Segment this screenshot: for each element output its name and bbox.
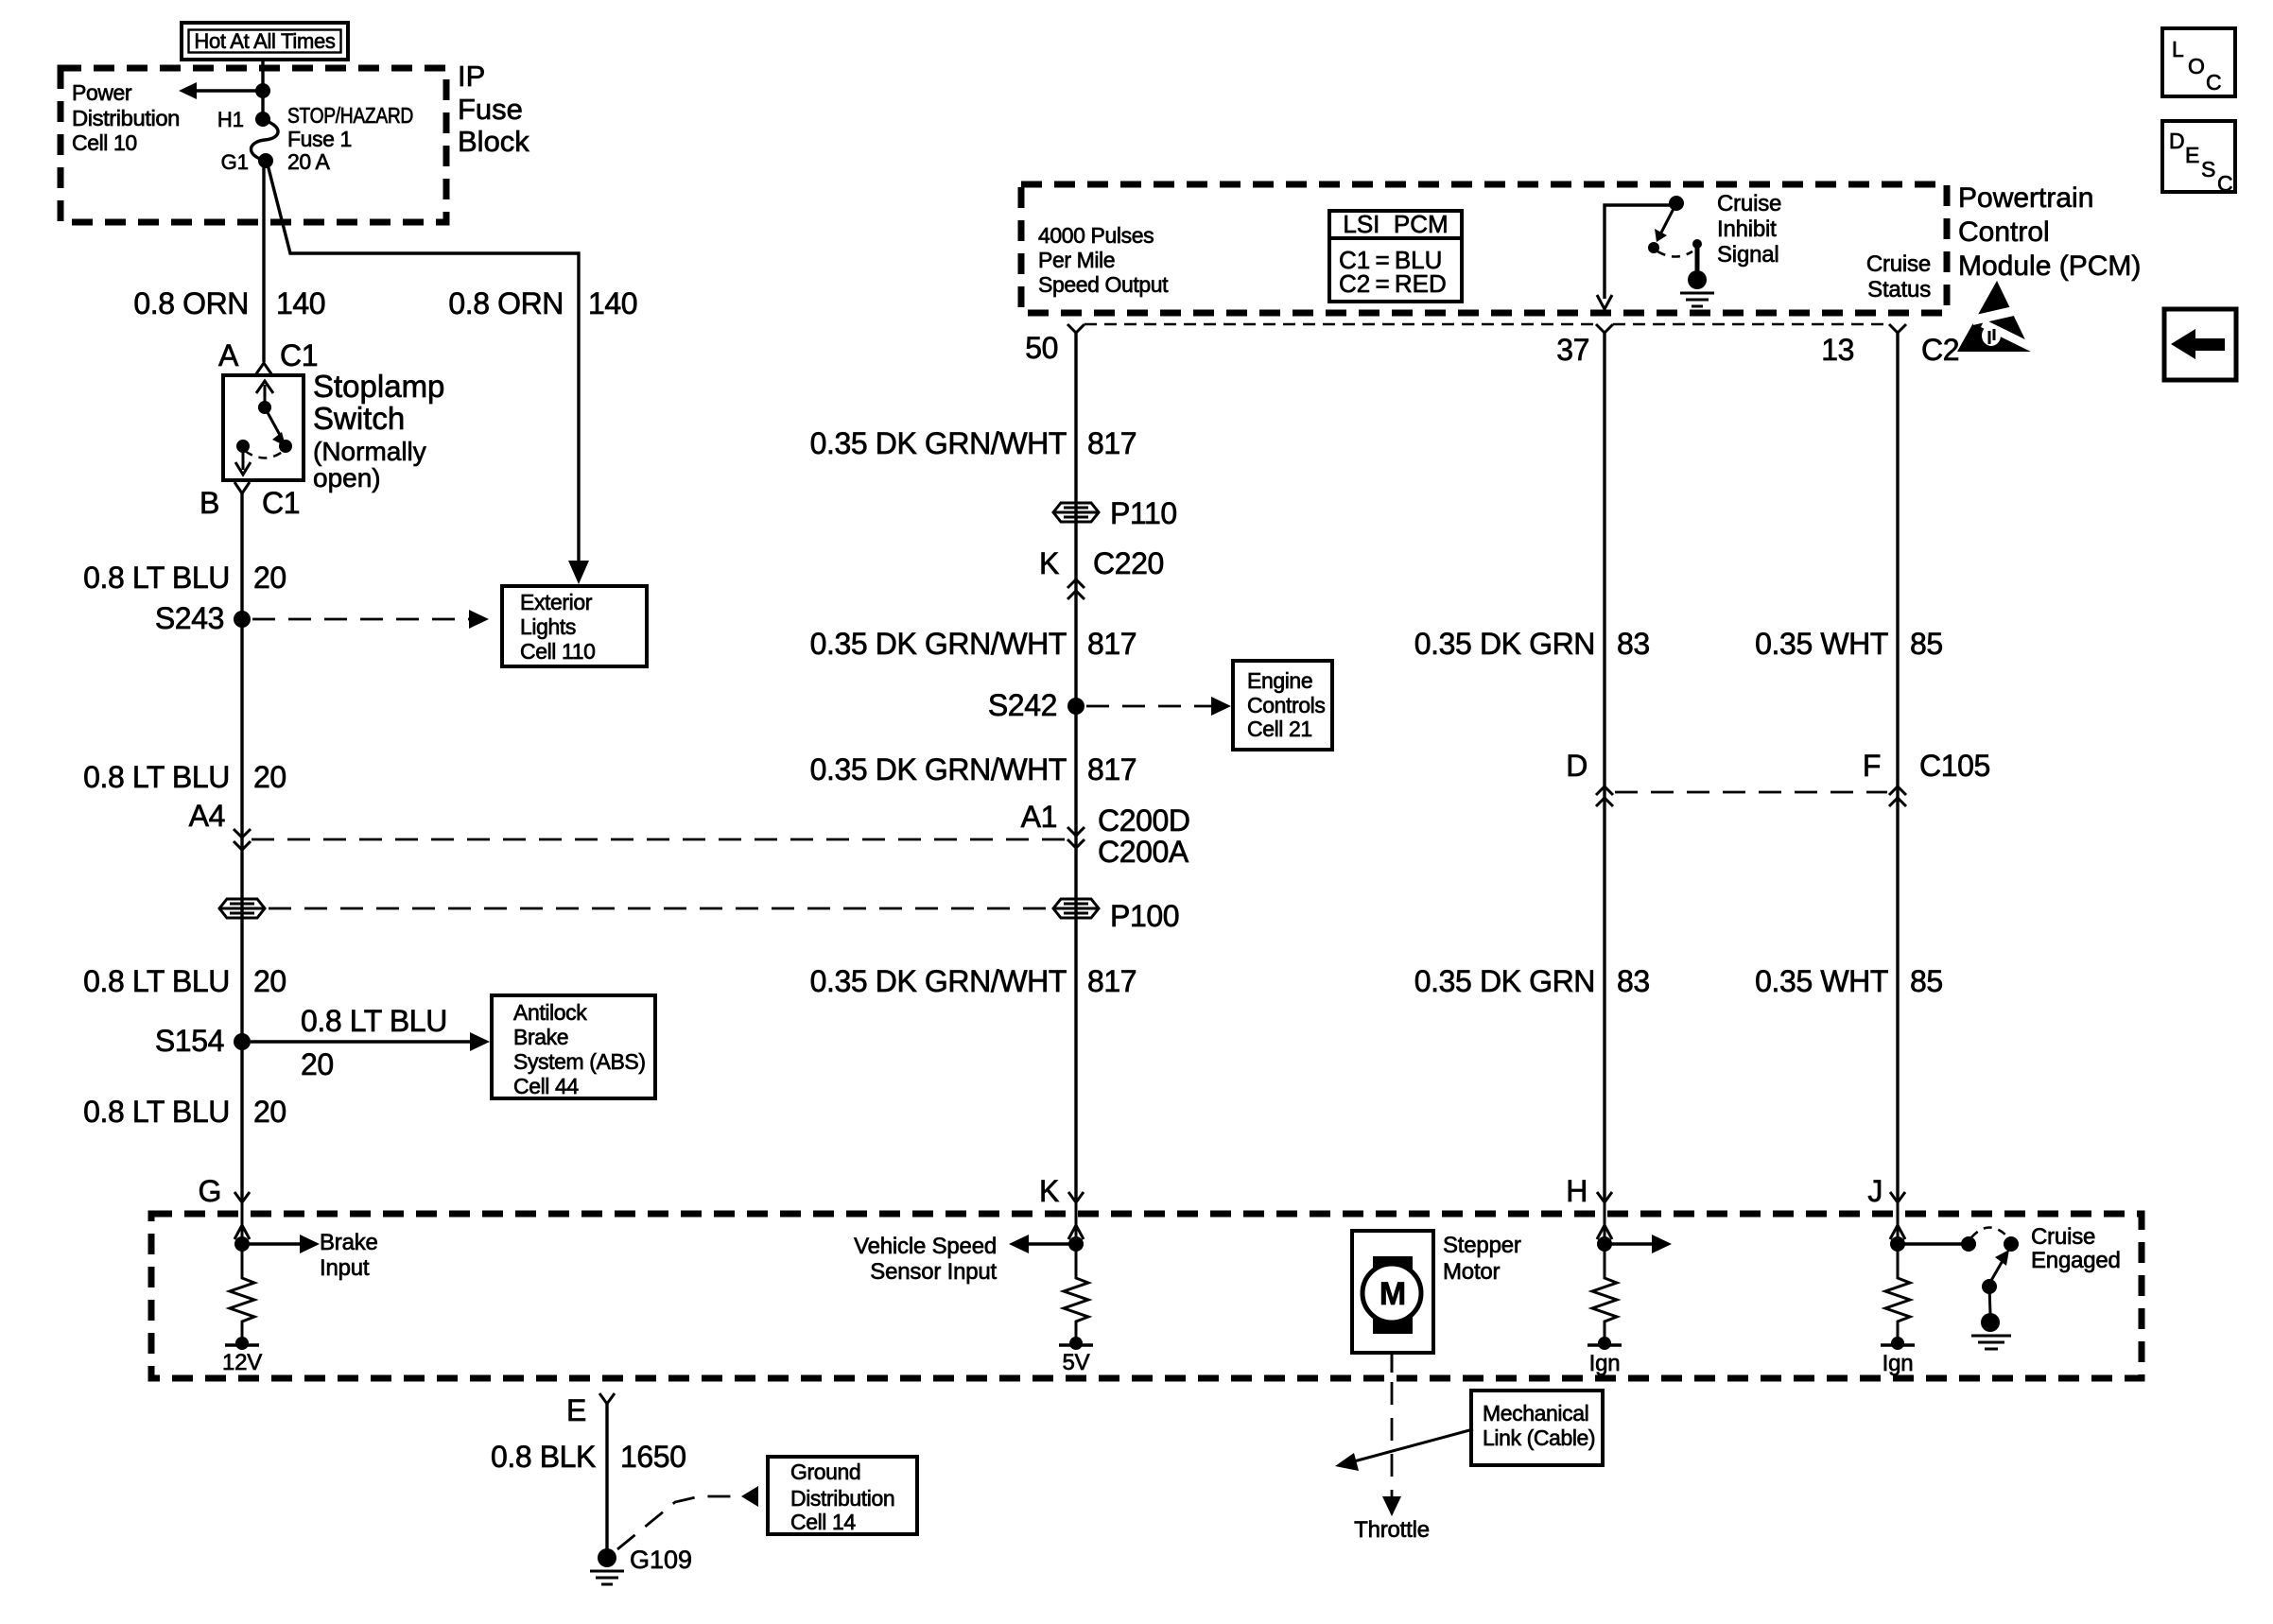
svg-text:open): open) xyxy=(313,463,381,492)
svg-text:Lights: Lights xyxy=(520,614,576,639)
wire label 0.35 DK GRN 83 (2) xyxy=(1414,964,1650,998)
dashed line connector C200 row xyxy=(252,838,1065,841)
svg-text:Input: Input xyxy=(320,1255,370,1281)
svg-text:Ground: Ground xyxy=(790,1460,860,1484)
svg-text:0.8 ORN: 0.8 ORN xyxy=(448,286,564,320)
svg-text:0.35 DK GRN/WHT: 0.35 DK GRN/WHT xyxy=(810,752,1067,786)
pin J xyxy=(1867,1174,1905,1244)
svg-text:A: A xyxy=(218,338,239,372)
svg-text:(Normally: (Normally xyxy=(313,437,426,466)
thin dashed connector line below PCM xyxy=(1084,323,1889,326)
wire label 0.35 WHT 85 (2) xyxy=(1755,964,1943,998)
svg-text:Cruise: Cruise xyxy=(1866,251,1931,277)
mechanical link cable box xyxy=(1471,1391,1603,1465)
wire label 0.35 DK GRN/WHT 817 (3) xyxy=(810,752,1137,786)
svg-text:C2: C2 xyxy=(1921,333,1959,367)
svg-text:0.35 DK GRN/WHT: 0.35 DK GRN/WHT xyxy=(810,426,1067,460)
resistor cruise engaged pull-up xyxy=(1885,1244,1910,1345)
svg-text:0.35 WHT: 0.35 WHT xyxy=(1755,627,1888,661)
svg-text:B: B xyxy=(200,486,219,520)
svg-text:Module (PCM): Module (PCM) xyxy=(1958,251,2141,282)
svg-text:Link (Cable): Link (Cable) xyxy=(1483,1425,1595,1450)
pin F connector C105 xyxy=(1863,749,1990,806)
svg-text:Brake: Brake xyxy=(320,1230,378,1255)
svg-text:0.35 DK GRN: 0.35 DK GRN xyxy=(1414,964,1595,998)
ground distribution box xyxy=(768,1457,917,1534)
node junction at power distribution tap xyxy=(255,83,270,98)
svg-text:C200D: C200D xyxy=(1098,803,1190,838)
wire label 0.8 BLK 1650 xyxy=(491,1440,686,1474)
svg-text:Mechanical: Mechanical xyxy=(1483,1401,1588,1425)
svg-text:Motor: Motor xyxy=(1443,1259,1501,1285)
svg-text:20: 20 xyxy=(253,1095,286,1129)
resistor VSS pull-up xyxy=(1064,1244,1088,1345)
svg-text:140: 140 xyxy=(588,286,637,320)
svg-text:Cruise: Cruise xyxy=(1717,191,1781,216)
IP fuse block dashed box xyxy=(61,68,446,222)
svg-text:Ign: Ign xyxy=(1883,1351,1914,1376)
svg-text:K: K xyxy=(1039,546,1059,580)
dashed arrow to ground distribution xyxy=(617,1486,758,1549)
stoplamp switch internals xyxy=(235,381,292,475)
svg-text:Cell 21: Cell 21 xyxy=(1247,717,1312,741)
svg-text:817: 817 xyxy=(1087,752,1136,786)
exterior lights box xyxy=(502,586,647,666)
Ign terminal H xyxy=(1588,1337,1622,1376)
svg-text:0.35 DK GRN: 0.35 DK GRN xyxy=(1414,627,1595,661)
svg-text:817: 817 xyxy=(1087,627,1136,661)
pin E xyxy=(566,1393,615,1550)
pin 37 xyxy=(1556,324,1613,367)
grommet P100 xyxy=(1053,899,1179,933)
cruise engaged switch xyxy=(1890,1228,2019,1350)
svg-text:Power: Power xyxy=(72,80,132,105)
grommet P110 xyxy=(1053,496,1177,530)
pin B connector C1 xyxy=(200,482,300,520)
Ign terminal J xyxy=(1881,1337,1915,1376)
Cruise Status label xyxy=(1866,251,1931,302)
Hot At All Times box xyxy=(182,23,348,60)
wire label 0.8 ORN 140 (left) xyxy=(133,286,325,320)
node G1 xyxy=(221,150,273,174)
svg-text:0.35 DK GRN/WHT: 0.35 DK GRN/WHT xyxy=(810,964,1067,998)
svg-text:13: 13 xyxy=(1821,333,1854,367)
4000 pulses label xyxy=(1038,223,1169,297)
svg-text:Speed Output: Speed Output xyxy=(1038,272,1169,297)
svg-text:Antilock: Antilock xyxy=(513,1000,587,1025)
svg-text:Hot At All Times: Hot At All Times xyxy=(194,29,336,53)
svg-text:Control: Control xyxy=(1958,216,2050,248)
wire from G1 down to stoplamp switch xyxy=(262,163,265,362)
svg-text:G109: G109 xyxy=(630,1546,692,1574)
svg-text:140: 140 xyxy=(276,286,325,320)
svg-text:Switch: Switch xyxy=(313,401,405,436)
svg-text:Block: Block xyxy=(458,125,529,158)
svg-text:Engaged: Engaged xyxy=(2031,1248,2121,1273)
fuse value label xyxy=(287,103,413,174)
svg-text:0.8 ORN: 0.8 ORN xyxy=(133,286,249,320)
IP Fuse Block label xyxy=(458,60,529,158)
Cruise Engaged label xyxy=(2031,1224,2121,1273)
wire label 0.35 DK GRN 83 (1) xyxy=(1414,627,1650,661)
svg-text:Cruise: Cruise xyxy=(2031,1224,2095,1250)
svg-text:P110: P110 xyxy=(1110,496,1177,530)
svg-text:50: 50 xyxy=(1025,331,1058,365)
svg-text:LSI PCM: LSI PCM xyxy=(1343,210,1448,238)
svg-text:Fuse 1: Fuse 1 xyxy=(287,127,352,151)
svg-text:C105: C105 xyxy=(1919,749,1990,783)
svg-text:20: 20 xyxy=(301,1047,334,1081)
wire arrow to Power Distribution xyxy=(179,82,261,99)
splice S243 xyxy=(155,601,251,635)
svg-text:D: D xyxy=(2169,129,2185,153)
svg-text:K: K xyxy=(1039,1174,1059,1208)
svg-text:Stepper: Stepper xyxy=(1443,1233,1521,1258)
LSI PCM legend table xyxy=(1329,210,1462,302)
svg-text:1650: 1650 xyxy=(620,1440,686,1474)
svg-text:Status: Status xyxy=(1867,277,1931,302)
svg-text:0.8 LT BLU: 0.8 LT BLU xyxy=(83,1095,230,1129)
wire branch from G1 to exterior lights feed xyxy=(268,164,579,563)
node H1 xyxy=(217,108,270,131)
svg-text:E: E xyxy=(566,1393,586,1427)
wire label 0.8 ORN 140 (right) xyxy=(448,286,637,320)
svg-text:Throttle: Throttle xyxy=(1354,1517,1430,1543)
fuse F1 STOP/HAZARD 20A xyxy=(252,120,279,161)
svg-text:Cell 110: Cell 110 xyxy=(520,639,595,664)
svg-text:4000 Pulses: 4000 Pulses xyxy=(1038,223,1154,248)
svg-text:Powertrain: Powertrain xyxy=(1958,182,2093,214)
ground G109 xyxy=(590,1546,692,1584)
wire label 0.35 WHT 85 (1) xyxy=(1755,627,1943,661)
svg-text:S243: S243 xyxy=(155,601,224,635)
wire label 0.8 LT BLU 20 (4) xyxy=(83,1095,286,1129)
wire stoplamp switch to cruise module pin G xyxy=(240,493,243,1202)
svg-text:S154: S154 xyxy=(155,1024,224,1058)
svg-text:E: E xyxy=(2185,143,2199,167)
svg-text:C2 = RED: C2 = RED xyxy=(1339,269,1447,298)
DESC box xyxy=(2162,121,2235,196)
dashed line grommet row to P100 xyxy=(269,907,1050,910)
pin K connector C220 xyxy=(1039,546,1164,599)
svg-text:Controls: Controls xyxy=(1247,693,1325,717)
Power Distribution Cell 10 label xyxy=(72,80,180,155)
svg-text:Brake: Brake xyxy=(513,1025,568,1049)
LOC box xyxy=(2162,28,2235,96)
svg-text:C1: C1 xyxy=(262,486,300,520)
svg-text:A4: A4 xyxy=(189,799,225,833)
arrow into exterior lights box xyxy=(568,561,589,584)
wire from Hot box to fuse H1 xyxy=(261,60,264,120)
svg-text:Signal: Signal xyxy=(1717,242,1779,268)
pin H xyxy=(1566,1174,1612,1244)
arrow to ABS xyxy=(251,1004,490,1081)
ABS box xyxy=(492,995,655,1098)
engine controls box xyxy=(1233,661,1332,750)
pin 50 xyxy=(1025,324,1084,365)
wire label 0.8 LT BLU 20 (2) xyxy=(83,760,286,794)
svg-text:A1: A1 xyxy=(1021,800,1057,834)
svg-text:0.35 DK GRN/WHT: 0.35 DK GRN/WHT xyxy=(810,627,1067,661)
dashed line connector C105 row xyxy=(1615,791,1887,794)
5V terminal xyxy=(1059,1337,1093,1375)
wire label 0.35 DK GRN/WHT 817 (4) xyxy=(810,964,1137,998)
svg-text:Sensor Input: Sensor Input xyxy=(870,1259,997,1285)
svg-text:0.35 WHT: 0.35 WHT xyxy=(1755,964,1888,998)
wire label 0.8 LT BLU 20 (3) xyxy=(83,964,286,998)
Powertrain Control Module label xyxy=(1958,182,2141,282)
svg-text:G1: G1 xyxy=(221,150,249,174)
svg-text:J: J xyxy=(1867,1174,1883,1208)
pin D connector xyxy=(1566,749,1613,806)
svg-text:IP: IP xyxy=(458,60,485,93)
wire label 0.35 DK GRN/WHT 817 (1) xyxy=(810,426,1137,460)
wire pin 50 to module pin K xyxy=(1074,333,1077,1202)
pin A1 connector C200D C200A xyxy=(1021,800,1190,869)
svg-text:20: 20 xyxy=(253,760,286,794)
pin A connector C1 xyxy=(218,338,318,375)
svg-text:Exterior: Exterior xyxy=(520,590,593,614)
resistor stepper pull-up xyxy=(1592,1244,1617,1345)
svg-text:C220: C220 xyxy=(1093,546,1164,580)
PCM dashed box xyxy=(1021,184,1947,313)
resistor brake input pull-up xyxy=(230,1244,254,1345)
svg-text:F: F xyxy=(1863,749,1881,783)
svg-text:S: S xyxy=(2201,157,2215,181)
arrow from mechanical link to cable xyxy=(1335,1429,1473,1471)
svg-text:Distribution: Distribution xyxy=(790,1486,894,1511)
svg-text:C1: C1 xyxy=(280,338,318,372)
vehicle speed sensor input arrow xyxy=(854,1234,1084,1285)
12V terminal xyxy=(222,1337,262,1375)
cruise inhibit internal circuit xyxy=(1597,196,1714,309)
dashed arrow to engine controls xyxy=(1086,697,1231,716)
splice S154 xyxy=(155,1024,251,1058)
svg-text:37: 37 xyxy=(1556,333,1589,367)
svg-text:817: 817 xyxy=(1087,426,1136,460)
svg-text:O: O xyxy=(2188,54,2205,78)
stepper motor box xyxy=(1352,1231,1433,1373)
svg-text:Fuse: Fuse xyxy=(458,93,523,126)
pin 13 connector C2 xyxy=(1821,324,1959,367)
dashed arrow to exterior lights xyxy=(252,610,489,629)
stoplamp switch label xyxy=(313,369,444,492)
svg-text:Engine: Engine xyxy=(1247,668,1312,693)
Cruise Inhibit Signal label xyxy=(1717,191,1781,268)
svg-text:H: H xyxy=(1566,1174,1588,1208)
svg-text:20 A: 20 A xyxy=(287,149,331,174)
svg-text:S242: S242 xyxy=(988,688,1057,722)
svg-text:G: G xyxy=(199,1174,222,1208)
Stepper Motor label xyxy=(1443,1233,1521,1285)
stoplamp switch box xyxy=(223,375,304,480)
svg-text:C: C xyxy=(2217,171,2233,196)
svg-text:P100: P100 xyxy=(1110,899,1179,933)
svg-text:C: C xyxy=(2206,70,2222,95)
svg-text:L: L xyxy=(2172,37,2184,61)
svg-text:0.8 LT BLU: 0.8 LT BLU xyxy=(83,964,230,998)
svg-text:Per Mile: Per Mile xyxy=(1038,248,1115,272)
svg-text:Vehicle Speed: Vehicle Speed xyxy=(854,1234,997,1259)
back arrow box xyxy=(2164,309,2236,380)
svg-text:Ign: Ign xyxy=(1589,1351,1621,1376)
svg-text:85: 85 xyxy=(1910,964,1943,998)
svg-text:0.8 BLK: 0.8 BLK xyxy=(491,1440,596,1474)
svg-text:Cell 14: Cell 14 xyxy=(790,1510,856,1534)
svg-text:Inhibit: Inhibit xyxy=(1717,216,1777,242)
svg-text:STOP/HAZARD: STOP/HAZARD xyxy=(287,103,413,128)
svg-text:85: 85 xyxy=(1910,627,1943,661)
svg-text:Cell 44: Cell 44 xyxy=(513,1074,579,1098)
ESD symbol xyxy=(1957,281,2040,352)
svg-text:0.8 LT BLU: 0.8 LT BLU xyxy=(83,561,230,595)
svg-text:Stoplamp: Stoplamp xyxy=(313,369,444,404)
svg-text:0.8 LT BLU: 0.8 LT BLU xyxy=(83,760,230,794)
svg-text:12V: 12V xyxy=(222,1350,262,1375)
svg-text:Cell 10: Cell 10 xyxy=(72,130,137,155)
wire label 0.35 DK GRN/WHT 817 (2) xyxy=(810,627,1137,661)
pin G xyxy=(199,1174,251,1244)
splice S242 xyxy=(988,688,1084,722)
svg-text:H1: H1 xyxy=(217,108,244,131)
svg-text:M: M xyxy=(1379,1276,1406,1312)
svg-text:Distribution: Distribution xyxy=(72,106,180,130)
svg-text:0.8 LT BLU: 0.8 LT BLU xyxy=(301,1004,447,1038)
pin A4 connector xyxy=(189,799,251,850)
wire pin 13 to module pin J xyxy=(1896,333,1899,1202)
svg-text:5V: 5V xyxy=(1063,1350,1090,1375)
stepper drive junction arrow xyxy=(1597,1235,1672,1253)
wire pin 37 to module pin H xyxy=(1603,333,1605,1202)
pin K bottom xyxy=(1039,1174,1084,1244)
wire label 0.8 LT BLU 20 (1) xyxy=(83,561,286,595)
svg-text:20: 20 xyxy=(253,964,286,998)
svg-text:83: 83 xyxy=(1617,627,1650,661)
brake input junction xyxy=(234,1230,378,1281)
svg-text:20: 20 xyxy=(253,561,286,595)
svg-text:C200A: C200A xyxy=(1098,835,1189,869)
mechanical link dashed line to throttle xyxy=(1354,1382,1430,1543)
svg-text:System (ABS): System (ABS) xyxy=(513,1049,646,1074)
svg-text:83: 83 xyxy=(1617,964,1650,998)
svg-text:817: 817 xyxy=(1087,964,1136,998)
cruise control module dashed box xyxy=(151,1214,2142,1378)
svg-text:D: D xyxy=(1566,749,1588,783)
grommet on left wire xyxy=(219,899,265,918)
